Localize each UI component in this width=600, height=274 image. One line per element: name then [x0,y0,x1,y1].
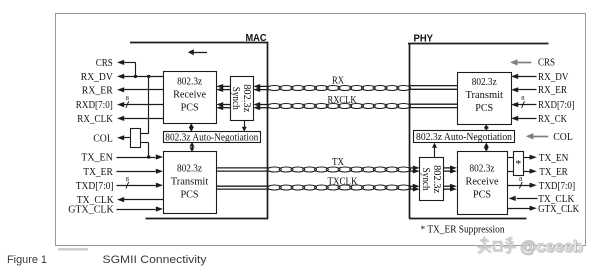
svg-text:802.3z Auto-Negotiation: 802.3z Auto-Negotiation [165,131,258,143]
svg-text:TX_ER: TX_ER [83,166,113,178]
svg-text:8: 8 [126,176,129,183]
svg-text:PCS: PCS [473,189,491,201]
svg-text:TXD[7:0]: TXD[7:0] [539,180,575,192]
svg-text:RX_DV: RX_DV [81,71,113,83]
svg-text:802.3z: 802.3z [177,75,202,87]
svg-text:COL: COL [553,131,573,143]
svg-text:802.3z: 802.3z [431,165,442,194]
svg-text:RX_CK: RX_CK [538,113,567,125]
svg-text:PCS: PCS [181,101,199,113]
svg-text:COL: COL [93,133,113,145]
svg-text:802.3z: 802.3z [472,76,497,88]
svg-text:PCS: PCS [475,102,493,114]
svg-text:PCS: PCS [181,189,199,201]
svg-text:Transmit: Transmit [171,176,209,188]
svg-text:GTX_CLK: GTX_CLK [68,204,114,216]
svg-text:Synch: Synch [420,168,431,191]
svg-text:802.3z: 802.3z [470,163,495,175]
svg-text:RXCLK: RXCLK [328,95,357,106]
svg-text:Receive: Receive [466,176,499,188]
svg-text:RX: RX [332,75,344,86]
svg-text:8: 8 [521,95,524,102]
svg-text:TX_ER: TX_ER [539,166,568,178]
svg-text:*: * [515,156,521,170]
svg-text:802.3z: 802.3z [177,163,202,175]
svg-text:TXCLK: TXCLK [328,176,358,187]
svg-text:8: 8 [126,95,129,102]
svg-text:RX_CLK: RX_CLK [77,113,113,125]
svg-text:RXD[7:0]: RXD[7:0] [538,99,575,111]
svg-text:802.3z: 802.3z [241,84,252,113]
svg-text:RX_ER: RX_ER [82,84,114,96]
svg-text:Transmit: Transmit [465,89,503,101]
svg-text:Figure 1: Figure 1 [7,254,47,266]
svg-text:Receive: Receive [173,88,206,100]
svg-text:TX_EN: TX_EN [81,152,113,164]
svg-text:@ceeeb: @ceeeb [520,238,583,256]
svg-text:PHY: PHY [414,33,434,45]
svg-text:802.3z Auto-Negotiation: 802.3z Auto-Negotiation [416,131,512,143]
svg-text:* TX_ER Suppression: * TX_ER Suppression [421,223,505,235]
svg-text:8: 8 [519,176,522,183]
svg-text:TXD[7:0]: TXD[7:0] [76,180,114,192]
svg-text:CRS: CRS [96,57,113,69]
svg-text:SGMII Connectivity: SGMII Connectivity [103,254,208,266]
svg-text:RXD[7:0]: RXD[7:0] [76,99,113,111]
svg-text:GTX_CLK: GTX_CLK [538,203,579,215]
svg-text:CRS: CRS [538,57,555,69]
svg-text:MAC: MAC [246,32,267,44]
svg-text:RX_ER: RX_ER [538,84,568,96]
svg-text:TX_EN: TX_EN [539,152,569,164]
svg-text:Synch: Synch [230,87,241,110]
svg-text:RX_DV: RX_DV [538,71,569,83]
svg-text:TX: TX [332,157,344,168]
